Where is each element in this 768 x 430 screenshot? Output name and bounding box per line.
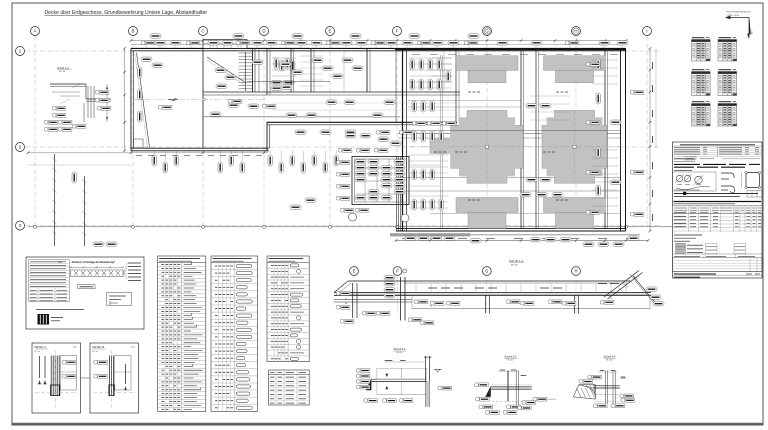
svg-text:G: G (485, 29, 489, 34)
svg-text:M 1:50: M 1:50 (511, 264, 518, 266)
stair room walls (252, 48, 254, 92)
svg-text:C: C (201, 29, 204, 34)
section 1-1 slab bottom band (334, 292, 651, 294)
site label tags (72, 172, 76, 183)
interior wall pair D-E a (290, 48, 292, 92)
dimension chain left of hall (124, 48, 126, 150)
hall wall inner tags (138, 67, 142, 78)
legend box frame (26, 257, 144, 329)
section 1-1 axis dashes (353, 266, 355, 316)
dimension texts under right block (402, 237, 411, 239)
rebar tags middle wing cluster (355, 160, 366, 164)
section 1-1 dimension texts (428, 287, 437, 289)
section 1-1 columns (352, 283, 354, 318)
drop panel H-1 top (544, 56, 606, 71)
section 1-1 E column tags (336, 291, 350, 295)
stirrup diagram (746, 173, 760, 188)
hall ramp diagonal line (137, 53, 150, 148)
detail Schnitt 4-4 verticals (604, 370, 606, 403)
bar schedule table pos list 2 frame (211, 256, 258, 411)
section 1-1 grid circles (350, 267, 359, 276)
legend black spacer sample (38, 314, 50, 325)
legend left text table (29, 260, 70, 302)
grid axis column lines (34, 36, 36, 226)
shadow strip under bottom wall (390, 233, 470, 236)
svg-text:Schnitt 4-4: Schnitt 4-4 (604, 356, 617, 359)
title block biegerollen label (674, 170, 692, 172)
detail box DETAIL A slab rectangle (61, 356, 77, 391)
corridor mid wall line (203, 116, 400, 118)
west bay inner verticals (440, 55, 442, 229)
title block hinweis band (674, 201, 762, 203)
mandrel diameter diagram (673, 172, 717, 191)
elevator shaft above top edge (203, 40, 247, 49)
svg-text:M 1:20: M 1:20 (59, 71, 66, 73)
title block project row (673, 271, 763, 273)
corridor floor lines (272, 102, 455, 104)
svg-text:Schnitt A-A: Schnitt A-A (57, 67, 69, 70)
stair flight C-D (239, 52, 253, 54)
detail box DETAIL A frame (32, 343, 81, 413)
section 1-1 left end lower slab lines (334, 299, 412, 301)
right block west wall (395, 48, 397, 122)
detail box DETAIL B slab rectangle (115, 356, 131, 391)
interior wall C (202, 48, 204, 148)
detail Schnitt 2-2 dim texts (385, 359, 393, 361)
detail B tags (94, 360, 108, 364)
svg-text:B: B (132, 29, 135, 34)
detail Schnitt 2-2 tags (356, 368, 370, 372)
interior wall pair at D (266, 48, 268, 95)
title block bold note lines (674, 163, 700, 165)
grid axis row lines (25, 50, 660, 52)
interior wall pair D-E b (310, 48, 312, 92)
title block list table header (673, 206, 763, 214)
drop panel edge partial at west wall (430, 139, 450, 154)
title block form rows (676, 243, 686, 246)
detail Schnitt A-A tags (95, 90, 109, 94)
bar schedule table pos list 2 columns (217, 263, 219, 412)
detail Schnitt 4-4 hatch patch (573, 385, 595, 399)
svg-text:H: H (574, 29, 577, 34)
grid axis circles A-I (31, 27, 40, 36)
detail Schnitt 3-3 left break (485, 386, 491, 397)
right block under-wall text dashes (412, 54, 420, 56)
interior wall pair between crosses (535, 48, 537, 228)
section 1-1 lower beam line (412, 308, 650, 310)
right block bottom wall (396, 228, 626, 230)
title block list table rows (673, 213, 763, 215)
legend quantity sub-table (29, 290, 70, 292)
legend spacer note box (107, 293, 132, 306)
exterior wall left edge (130, 48, 132, 150)
detail box DETAIL A axes dashed (35, 392, 78, 394)
bar schedule table pos list 1 rows (158, 265, 206, 267)
legend spacer bar diagram (71, 270, 124, 277)
title block revision table (673, 258, 763, 272)
svg-text:M 1:20: M 1:20 (508, 360, 514, 362)
hall centre dashed axis (133, 99, 267, 101)
detail Schnitt 2-2 column (425, 356, 427, 407)
bottom dimension chain with node squares (28, 226, 672, 228)
title block frame (673, 142, 763, 278)
wall at D between hall and court (266, 122, 268, 151)
steel summary mini tables (692, 38, 737, 126)
right block interior column strips (520, 48, 522, 228)
bar schedule table pos list 1 cell text marks (162, 264, 165, 266)
svg-text:DETAIL A: DETAIL A (35, 345, 47, 349)
legend leader labels right (123, 263, 128, 273)
drop panel G-1 top (456, 56, 518, 71)
interior wall pair E-F (366, 48, 368, 92)
rebar tags below bottom wall (405, 236, 416, 240)
section 1-1 lower tags (414, 300, 428, 304)
detail Schnitt 2-2 left break (366, 378, 372, 390)
svg-text:Schnitt 2-2: Schnitt 2-2 (394, 348, 407, 351)
bar schedule table pos list 3 cell text marks (271, 264, 274, 266)
dimension texts along right chain (652, 62, 654, 69)
hall corner room (134, 139, 144, 148)
detail Schnitt 4-4 tags (588, 375, 602, 379)
legend unterlage label (78, 285, 95, 289)
detail Schnitt 3-3 slab lines (491, 386, 532, 388)
interior corridor wall y92 (203, 91, 460, 93)
detail box DETAIL B frame (90, 343, 139, 413)
svg-text:M 1:20: M 1:20 (397, 352, 403, 354)
svg-text:E: E (329, 29, 332, 34)
detail Schnitt 2-2 slab lines (371, 378, 426, 380)
title block ausgabe row (674, 158, 688, 160)
detail Schnitt A-A slab lines (50, 83, 86, 85)
block-wide slab line (408, 130, 620, 132)
detail Schnitt 3-3 verticals (506, 370, 508, 401)
interior slab edge y122 (267, 121, 457, 123)
dimension chain under right block (396, 240, 648, 242)
bar schedule table pos list 3 frame (267, 256, 309, 362)
detail A-B connector line (81, 377, 91, 379)
svg-text:F: F (396, 269, 399, 274)
tiny centre texts in crosses (434, 151, 437, 153)
bar schedule table pos list 3 rows (267, 267, 309, 269)
section 1-1 right ramp (604, 271, 639, 298)
rebar tags above wing (345, 134, 356, 138)
rebar tag column west bay of right block (410, 59, 414, 70)
exterior wall top edge (131, 47, 626, 49)
svg-text:⊥⊥: ⊥⊥ (58, 260, 63, 264)
detail box DETAIL B bar bundle (109, 356, 111, 396)
middle wing walls (352, 157, 409, 205)
interior wall pair at F-west (455, 48, 457, 122)
bar schedule table pos list 1 columns (164, 263, 166, 412)
detail Schnitt 2-2 arrows (385, 374, 388, 377)
svg-text:F: F (396, 29, 399, 34)
dimension chain under hall (28, 152, 268, 154)
svg-text:Schnitt 3-3: Schnitt 3-3 (505, 356, 518, 359)
ramp diagonal room C (207, 57, 246, 83)
svg-text:Schnitt 1-1: Schnitt 1-1 (509, 259, 524, 263)
summary table small (269, 370, 310, 405)
detail Schnitt 2-2 level marker (436, 369, 440, 372)
title block abstandhalter note (674, 234, 702, 236)
detail Schnitt 3-3 dim texts (500, 369, 506, 371)
svg-text:HW-KERNBEWEHRUNG: HW-KERNBEWEHRUNG (726, 12, 751, 14)
rebar tags hall interior (158, 105, 172, 109)
detail Schnitt 4-4 slab lines (593, 385, 620, 387)
detail box DETAIL B axes dashed (93, 392, 136, 394)
svg-text:I: I (646, 29, 647, 34)
site boundary wall lines (54, 154, 56, 246)
wing east wall bundle (396, 157, 398, 231)
rebar tag rows mid right block (412, 121, 426, 125)
detail Schnitt A-A dimension arrows (106, 84, 108, 122)
rebar tags right edge of block (596, 59, 600, 70)
detail box DETAIL A bar bundle (50, 356, 52, 396)
svg-text:M 1:xx: M 1:xx (35, 351, 40, 353)
legend hatch note text (36, 309, 84, 311)
section 1-1 slab top lines (348, 280, 630, 282)
title block vermassung row (674, 193, 758, 195)
title block abstuetzen cells (747, 191, 763, 198)
dimension chain right of block (649, 48, 651, 231)
svg-text:M 1:20: M 1:20 (607, 360, 613, 362)
section 1-1 left step (334, 281, 348, 293)
left hall bottom wall (131, 147, 269, 149)
right block interior floor lines (398, 133, 620, 135)
title block ausgefuehrt row (673, 253, 763, 255)
bar schedule table pos list 2 cell text marks (215, 265, 218, 267)
svg-text:A: A (34, 29, 37, 34)
rotated rebar tags under hall wall (152, 155, 156, 166)
drop panel G-2 centre (451, 125, 524, 168)
drop panel H-2 centre (542, 125, 607, 168)
svg-text:Abstand „Unterlage der Bewehru: Abstand „Unterlage der Bewehrung“ (72, 261, 116, 264)
bar schedule table pos list 2 rows (211, 269, 258, 271)
hall bottom dimension text dashes (136, 155, 142, 157)
washroom fixture lines (272, 57, 296, 59)
right block bay rebar lines (409, 57, 452, 59)
rebar tags inside upper rooms (215, 68, 226, 72)
hook bend diagram (721, 173, 735, 193)
svg-text:DETAIL B: DETAIL B (93, 345, 105, 349)
svg-text:D: D (262, 29, 265, 34)
rebar tags court area (93, 242, 104, 246)
hall top corner tags (141, 57, 152, 61)
section 1-1 left tag cluster (384, 276, 395, 280)
dimension chain above plan (131, 40, 626, 42)
wing access circle (349, 213, 357, 221)
detail Schnitt 3-3 tags (474, 383, 488, 387)
section 1-1 rebar ticks (415, 284, 417, 293)
vertical tag cluster room D (274, 58, 278, 69)
rebar tags left of wing (336, 160, 350, 164)
svg-text:M 1:xx: M 1:xx (93, 351, 98, 353)
detail Schnitt 4-4 dim texts (600, 370, 604, 372)
right block east wall (620, 48, 622, 231)
grid axis circles 1-3 (16, 47, 25, 56)
bar schedule table pos list 1 frame (158, 256, 206, 411)
drop panel G-3 bottom (456, 198, 518, 213)
bar schedule table pos list 3 columns (273, 263, 275, 362)
rebar tag leaders above top wall (145, 45, 147, 48)
detail A tags (62, 360, 76, 364)
rebar tag row above top wall (141, 41, 155, 45)
section 1-1 ramp tags (646, 287, 657, 291)
wing to block connecting lines (409, 164, 440, 166)
drop panel H-3 bottom (544, 198, 606, 213)
title block steel spec header (680, 144, 755, 146)
